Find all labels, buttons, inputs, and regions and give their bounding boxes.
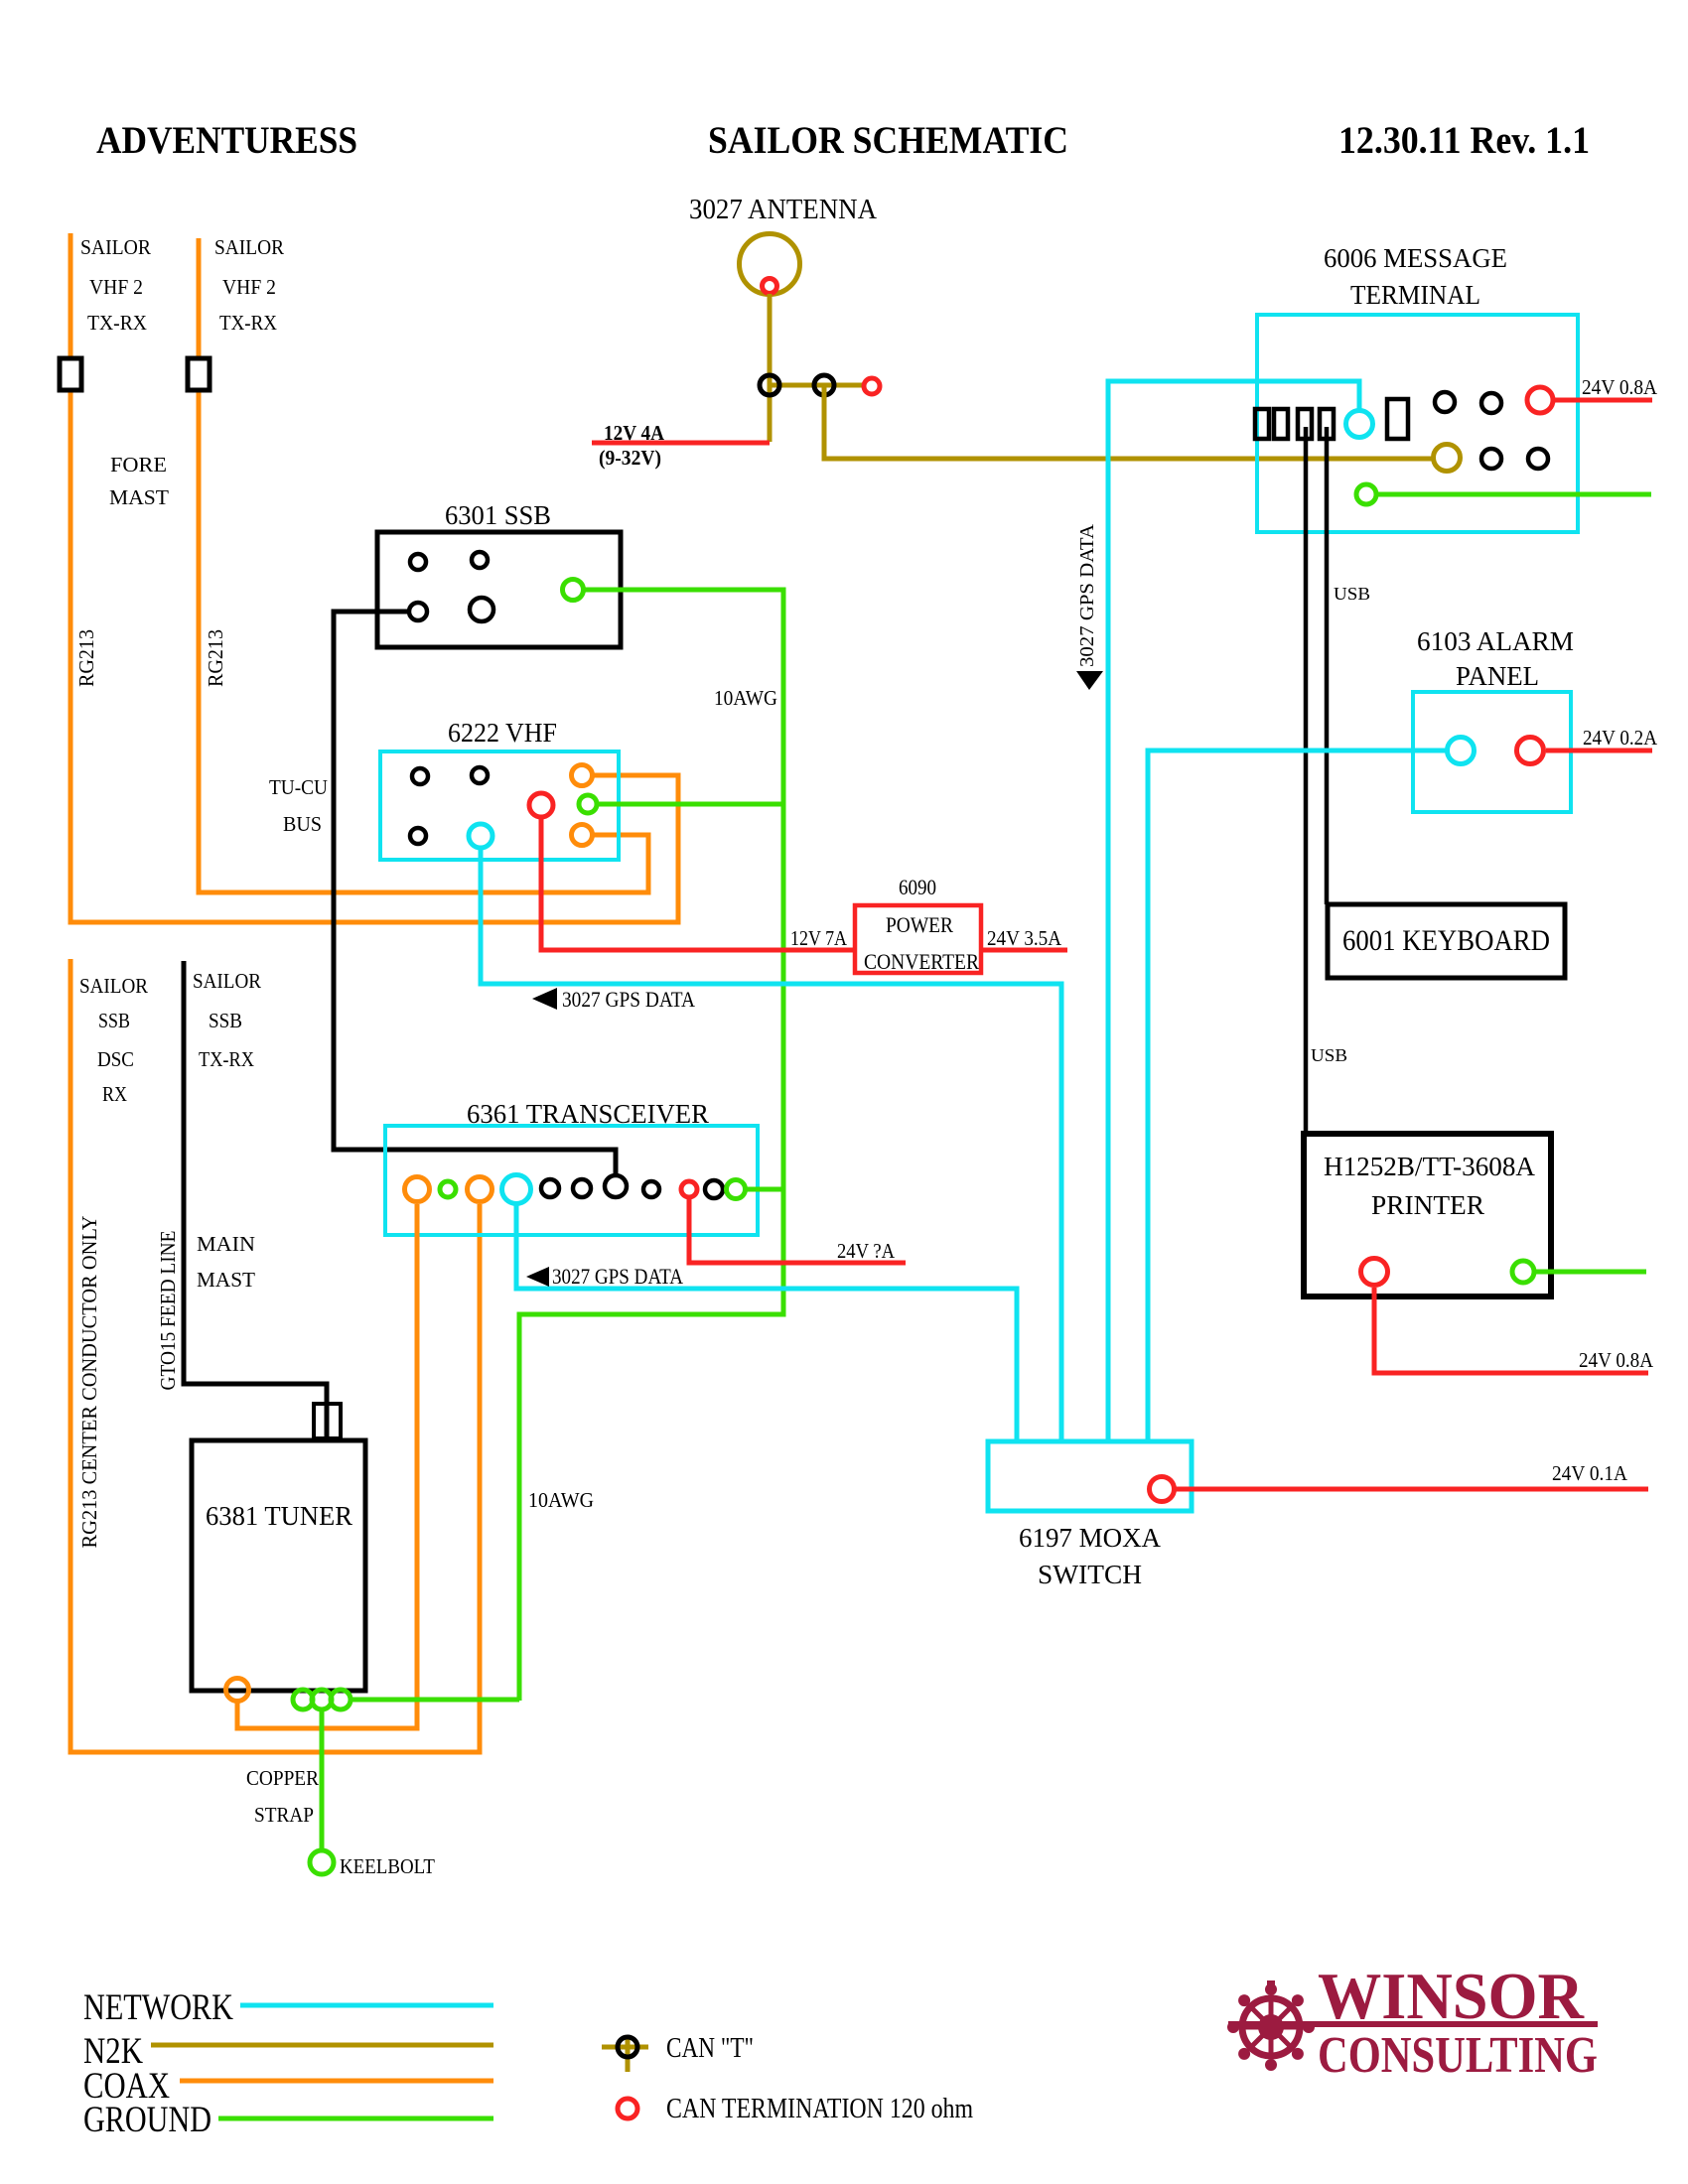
svg-text:COPPER: COPPER bbox=[246, 1766, 319, 1790]
wire red 24V 0.2A 6103 bbox=[1546, 749, 1652, 753]
svg-text:GTO15 FEED LINE: GTO15 FEED LINE bbox=[156, 1231, 180, 1391]
box 6090 power converter bbox=[855, 905, 981, 973]
connector GTO15 plug divider bbox=[325, 1404, 329, 1438]
svg-text:12V 7A: 12V 7A bbox=[790, 926, 848, 950]
6222 pin black 2 bbox=[472, 767, 488, 783]
svg-text:6001 KEYBOARD: 6001 KEYBOARD bbox=[1342, 924, 1550, 957]
6006 connector pin rect 4 bbox=[1320, 409, 1334, 439]
box 6001 keyboard bbox=[1328, 904, 1565, 978]
svg-text:VHF 2: VHF 2 bbox=[222, 275, 276, 299]
svg-text:6301 SSB: 6301 SSB bbox=[445, 500, 551, 530]
svg-text:10AWG: 10AWG bbox=[714, 686, 777, 710]
svg-text:6090: 6090 bbox=[899, 875, 936, 899]
wire 12V 4A power red bbox=[592, 441, 770, 446]
svg-text:PRINTER: PRINTER bbox=[1371, 1190, 1484, 1220]
6301 pin black 4 bbox=[470, 598, 493, 621]
svg-text:3027 GPS DATA: 3027 GPS DATA bbox=[552, 1264, 683, 1289]
6361 pin black TU-CU bbox=[605, 1175, 627, 1197]
legend line network cyan bbox=[240, 2003, 493, 2008]
6301 pin black 1 bbox=[410, 554, 426, 570]
wire ground 10AWG green main run bbox=[519, 590, 783, 1701]
6361 pin black 3 bbox=[643, 1181, 659, 1197]
CAN T junction 2 bbox=[814, 375, 834, 395]
legend CAN termination circle bbox=[618, 2099, 637, 2118]
box 6103 alarm panel bbox=[1413, 692, 1571, 812]
arrow down 3027 GPS DATA bbox=[1076, 671, 1103, 690]
wire ground green 6006 bbox=[1377, 492, 1651, 497]
logo ship wheel bbox=[1227, 1980, 1315, 2071]
6381 coax pin orange bbox=[226, 1679, 249, 1702]
arrow 3027 GPS DATA upper bbox=[532, 988, 557, 1010]
6361 pin black 1 bbox=[541, 1179, 559, 1197]
svg-text:TX-RX: TX-RX bbox=[219, 311, 277, 335]
svg-text:CAN "T": CAN "T" bbox=[666, 2033, 754, 2064]
6361 pin black 4 bbox=[705, 1180, 723, 1198]
svg-text:12V 4A: 12V 4A bbox=[604, 421, 665, 445]
svg-text:3027 ANTENNA: 3027 ANTENNA bbox=[689, 195, 878, 225]
6381 ground pin green 3 bbox=[331, 1690, 351, 1709]
legend CAN T symbol wire bbox=[602, 2037, 648, 2072]
svg-text:SAILOR: SAILOR bbox=[79, 974, 148, 998]
svg-text:SSB: SSB bbox=[98, 1009, 130, 1032]
box 6361 transceiver bbox=[385, 1126, 758, 1235]
legend line coax orange bbox=[180, 2079, 493, 2084]
wire N2K tee horizontal bbox=[770, 383, 863, 388]
svg-text:USB: USB bbox=[1311, 1045, 1347, 1065]
wire coax RG213 fore mast antenna 2 bbox=[199, 238, 648, 892]
svg-text:PANEL: PANEL bbox=[1456, 661, 1539, 691]
6301 ground pin green bbox=[563, 580, 584, 601]
svg-text:CONVERTER: CONVERTER bbox=[864, 949, 979, 974]
svg-text:CAN TERMINATION 120 ohm: CAN TERMINATION 120 ohm bbox=[666, 2094, 973, 2124]
wire N2K drop to message terminal bbox=[824, 385, 1432, 459]
svg-text:6103 ALARM: 6103 ALARM bbox=[1417, 626, 1574, 656]
svg-text:SSB: SSB bbox=[209, 1009, 242, 1032]
moxa power pin red bbox=[1150, 1477, 1175, 1502]
wire network cyan 6006 to moxa bbox=[1108, 381, 1359, 1441]
wire red 24V 0.8A 6006 bbox=[1555, 398, 1652, 403]
svg-text:6222 VHF: 6222 VHF bbox=[448, 718, 557, 748]
wire ground green 6361 branch bbox=[746, 1187, 783, 1192]
svg-text:SAILOR: SAILOR bbox=[80, 235, 151, 259]
svg-text:(9-32V): (9-32V) bbox=[599, 446, 661, 470]
wire network cyan 6103 to moxa bbox=[1148, 751, 1446, 1441]
svg-text:RG213: RG213 bbox=[204, 629, 227, 687]
svg-text:DSC: DSC bbox=[97, 1047, 134, 1071]
svg-text:24V 0.8A: 24V 0.8A bbox=[1579, 1348, 1654, 1372]
wire red 24V 0.1A moxa bbox=[1176, 1487, 1648, 1492]
svg-text:10AWG: 10AWG bbox=[528, 1488, 594, 1512]
6222 power pin red bbox=[529, 793, 553, 817]
svg-text:MAST: MAST bbox=[197, 1268, 255, 1292]
wire red 24V 0.8A printer bbox=[1374, 1288, 1648, 1373]
svg-text:FORE: FORE bbox=[110, 453, 167, 477]
box 6006 message terminal bbox=[1257, 315, 1578, 532]
legend line N2K olive bbox=[151, 2043, 493, 2048]
6103 power pin red bbox=[1517, 738, 1544, 764]
svg-text:KEELBOLT: KEELBOLT bbox=[340, 1854, 435, 1878]
6006 power pin red bbox=[1527, 387, 1553, 413]
svg-text:3027 GPS DATA: 3027 GPS DATA bbox=[562, 987, 695, 1012]
6361 pin green small bbox=[440, 1181, 456, 1197]
antenna 3027 circle bbox=[740, 234, 800, 295]
box printer bbox=[1304, 1134, 1551, 1297]
legend line ground green bbox=[218, 2116, 493, 2121]
6361 coax pin orange 1 bbox=[405, 1177, 430, 1202]
svg-text:ADVENTURESS: ADVENTURESS bbox=[96, 119, 357, 162]
svg-text:STRAP: STRAP bbox=[254, 1803, 314, 1827]
printer power pin red bbox=[1361, 1259, 1388, 1286]
6006 connector pin rect 3 bbox=[1298, 409, 1312, 439]
6006 pin black r1c1 bbox=[1435, 392, 1455, 412]
svg-text:TERMINAL: TERMINAL bbox=[1350, 280, 1480, 310]
wire ground green copper strap bbox=[320, 1709, 325, 1848]
svg-text:TX-RX: TX-RX bbox=[199, 1047, 254, 1071]
arrow 3027 GPS DATA lower bbox=[526, 1267, 549, 1287]
svg-text:24V 3.5A: 24V 3.5A bbox=[987, 926, 1062, 950]
svg-text:NETWORK: NETWORK bbox=[83, 1987, 233, 2028]
CAN termination at antenna bbox=[763, 279, 777, 294]
6222 coax pin orange top bbox=[572, 765, 593, 786]
6006 connector rect large bbox=[1387, 399, 1408, 439]
6006 connector pin rect 2 bbox=[1274, 409, 1288, 439]
box 6301 SSB bbox=[377, 532, 621, 647]
svg-text:12.30.11 Rev. 1.1: 12.30.11 Rev. 1.1 bbox=[1338, 119, 1590, 162]
6361 power pin red bbox=[681, 1181, 697, 1197]
wire ground green printer bbox=[1536, 1270, 1646, 1275]
wire black USB to keyboard bbox=[1325, 427, 1330, 904]
6381 ground pin green 1 bbox=[293, 1690, 313, 1709]
wire black USB to printer bbox=[1304, 427, 1309, 1134]
wire coax RG213 fore mast antenna 1 bbox=[70, 233, 678, 922]
CAN T junction 1 bbox=[760, 375, 779, 395]
6361 ground pin green bbox=[727, 1180, 746, 1199]
legend CAN T symbol circle bbox=[618, 2037, 637, 2057]
6361 pin black 2 bbox=[573, 1179, 591, 1197]
svg-text:MAIN: MAIN bbox=[197, 1232, 255, 1256]
6361 network pin cyan bbox=[502, 1175, 531, 1204]
svg-text:SAILOR: SAILOR bbox=[214, 235, 284, 259]
6103 network pin cyan bbox=[1448, 738, 1475, 764]
wire black GTO15 feed line bbox=[184, 961, 327, 1438]
svg-text:RX: RX bbox=[102, 1082, 127, 1106]
wire ground green tuner link bbox=[351, 1698, 519, 1703]
wire red 12V 7A 6222 to converter bbox=[541, 819, 855, 950]
keelbolt ground circle bbox=[310, 1850, 334, 1874]
connector on mast line 2 bbox=[188, 358, 210, 390]
6006 network pin cyan bbox=[1346, 411, 1373, 438]
svg-text:RG213: RG213 bbox=[74, 629, 98, 687]
wire coax orange tuner to transceiver bbox=[237, 1204, 417, 1728]
svg-text:6006 MESSAGE: 6006 MESSAGE bbox=[1324, 243, 1507, 273]
svg-text:24V 0.8A: 24V 0.8A bbox=[1582, 375, 1658, 399]
svg-text:MAST: MAST bbox=[109, 485, 169, 509]
box 6222 VHF bbox=[380, 751, 619, 860]
svg-text:BUS: BUS bbox=[283, 812, 322, 836]
wire network cyan 6222 to moxa bbox=[481, 850, 1061, 1441]
6222 coax pin orange bottom bbox=[572, 825, 593, 846]
wire ground green 6222 branch bbox=[598, 802, 783, 807]
logo underline bbox=[1228, 2021, 1598, 2027]
wire N2K antenna stem bbox=[768, 294, 773, 442]
svg-text:WINSOR: WINSOR bbox=[1318, 1960, 1585, 2033]
svg-text:VHF 2: VHF 2 bbox=[89, 275, 143, 299]
wire black TU-CU bus from 6301 bbox=[334, 612, 616, 1175]
svg-text:SWITCH: SWITCH bbox=[1038, 1560, 1142, 1589]
svg-text:POWER: POWER bbox=[886, 912, 953, 937]
svg-text:H1252B/TT-3608A: H1252B/TT-3608A bbox=[1324, 1152, 1535, 1181]
6222 pin black 3 bbox=[410, 828, 426, 844]
svg-text:SAILOR SCHEMATIC: SAILOR SCHEMATIC bbox=[708, 119, 1068, 162]
svg-text:CONSULTING: CONSULTING bbox=[1318, 2027, 1598, 2084]
svg-text:6381 TUNER: 6381 TUNER bbox=[206, 1501, 352, 1531]
svg-text:24V 0.2A: 24V 0.2A bbox=[1583, 726, 1658, 750]
connector on mast line 1 bbox=[60, 358, 81, 390]
connector GTO15 plug on tuner bbox=[314, 1404, 341, 1438]
svg-text:24V 0.1A: 24V 0.1A bbox=[1552, 1461, 1628, 1485]
6301 pin black 2 bbox=[472, 552, 488, 568]
CAN termination right of tee bbox=[864, 378, 880, 394]
6381 ground pin green 2 bbox=[312, 1690, 332, 1709]
svg-text:GROUND: GROUND bbox=[83, 2100, 211, 2140]
6006 N2K pin olive bbox=[1434, 445, 1461, 472]
6006 pin black r2c2 bbox=[1528, 449, 1548, 469]
box 6381 tuner bbox=[192, 1440, 365, 1691]
svg-text:TU-CU: TU-CU bbox=[269, 775, 328, 799]
6006 pin black r1c2 bbox=[1481, 393, 1501, 413]
wire coax RG213 SSB antenna feed bbox=[70, 959, 480, 1752]
box 6197 moxa switch bbox=[988, 1441, 1192, 1511]
wire red 24V 3.5A converter output bbox=[981, 948, 1067, 953]
svg-text:TX-RX: TX-RX bbox=[87, 311, 147, 335]
svg-text:RG213 CENTER CONDUCTOR ONLY: RG213 CENTER CONDUCTOR ONLY bbox=[77, 1216, 101, 1549]
svg-text:USB: USB bbox=[1334, 584, 1370, 604]
6222 network pin cyan bbox=[469, 824, 492, 848]
6222 pin black 1 bbox=[412, 768, 428, 784]
printer ground pin green bbox=[1512, 1261, 1534, 1283]
6222 ground pin green bbox=[579, 795, 597, 813]
wire network cyan 6361 to moxa bbox=[516, 1205, 1017, 1441]
6301 pin black 3 bbox=[409, 603, 427, 620]
svg-text:3027 GPS DATA: 3027 GPS DATA bbox=[1076, 523, 1098, 667]
6006 connector pin rect 1 bbox=[1255, 409, 1269, 439]
svg-text:SAILOR: SAILOR bbox=[193, 969, 261, 993]
wire red 24V ?A 6361 bbox=[689, 1197, 906, 1263]
6006 pin black r2c1 bbox=[1481, 449, 1501, 469]
6006 ground pin green bbox=[1356, 484, 1376, 504]
svg-text:6197 MOXA: 6197 MOXA bbox=[1019, 1523, 1161, 1553]
6361 coax pin orange 2 bbox=[468, 1177, 492, 1202]
svg-text:24V ?A: 24V ?A bbox=[837, 1239, 896, 1263]
